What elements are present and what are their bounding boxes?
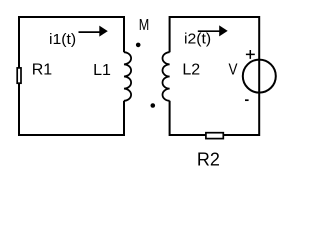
resistor R1: [17, 68, 21, 83]
polarity minus: [245, 99, 249, 101]
svg-text:R1: R1: [32, 61, 53, 78]
resistor R2: [206, 133, 223, 139]
current arrow i1: [79, 31, 101, 33]
svg-text:M: M: [139, 17, 150, 34]
svg-text:V: V: [229, 61, 238, 78]
wire right loop: [170, 17, 260, 135]
svg-text:R2: R2: [197, 150, 220, 170]
svg-text:L2: L2: [182, 61, 200, 78]
svg-text:i2(t): i2(t): [184, 32, 211, 48]
voltage source V: [243, 60, 276, 93]
current arrow i2: [198, 30, 220, 32]
polarity plus: [246, 50, 255, 59]
wire left loop: [19, 17, 124, 135]
polarity dot (L1): [136, 43, 141, 48]
inductor L1: [124, 52, 131, 101]
svg-text:L1: L1: [93, 62, 111, 79]
svg-text:i1(t): i1(t): [49, 32, 76, 48]
polarity dot (L2): [151, 103, 156, 108]
inductor L2: [162, 52, 169, 101]
